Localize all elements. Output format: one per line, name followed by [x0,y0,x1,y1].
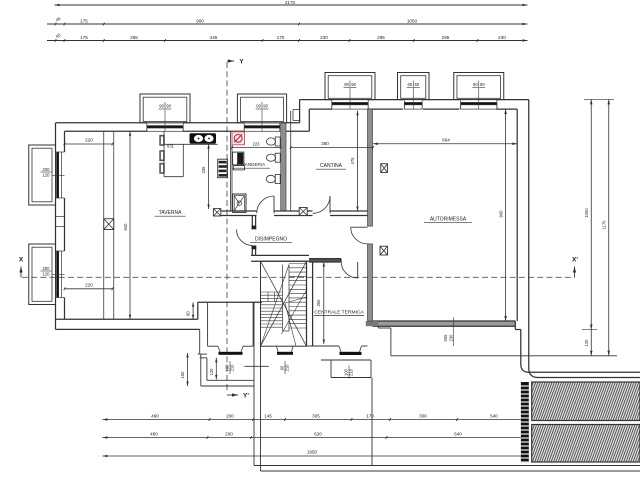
window sill bar [147,125,183,128]
porch outer step outline [199,329,201,354]
section marker Y' bottom [232,393,238,396]
terrace edge line [391,355,617,357]
svg-text:555: 555 [443,334,448,342]
interior wall garage left grey x=367.5-372.5 with door gap [368,109,373,226]
svg-text:631: 631 [167,143,175,148]
label 100/210 entrance1 rotated [225,361,235,374]
svg-text:X': X' [572,257,578,264]
wall disimpegno/porch vertical x=252-255.6 with door [251,216,253,230]
svg-text:220: 220 [85,282,93,287]
svg-text:170: 170 [366,413,374,418]
top wall left section outer y=122.8 with window gaps [56,122,148,124]
dim 80 step [192,302,194,319]
svg-text:120: 120 [584,339,589,347]
ct stoop box [330,360,332,378]
ct bottom edge with entrance3 gap [307,345,340,347]
svg-text:60: 60 [408,82,413,87]
window sill bar [244,125,280,128]
svg-text:150: 150 [180,371,185,379]
site boundary double line bottom [254,465,640,467]
svg-text:CANTINA: CANTINA [320,163,343,169]
svg-text:620: 620 [314,431,322,436]
svg-text:120: 120 [43,173,51,178]
svg-text:285: 285 [130,35,138,40]
left window box [29,244,56,305]
left window glass in wall [56,251,59,298]
ct door leaf and arc [357,262,359,278]
red stove symbol [232,132,245,145]
garage bottom wall step left [377,326,379,328]
window box [140,94,190,123]
step edge between entrance porches [244,365,268,367]
svg-text:80: 80 [186,311,191,316]
window box [454,73,504,100]
entrance2 sill under stairs [277,346,279,352]
wc fixture 1 [275,137,280,146]
svg-text:210: 210 [285,364,290,372]
svg-text:295: 295 [442,35,450,40]
stairs diagonals [261,261,307,346]
kitchen peninsula [182,144,184,176]
svg-text:300: 300 [419,413,427,418]
svg-text:90: 90 [159,104,164,109]
dimension row 45/175/285/445/170/230/295/295/230 [47,40,528,42]
dim 940 garage vertical [505,109,507,321]
svg-text:200: 200 [43,167,51,172]
dim 840 taverna vertical [129,131,131,319]
svg-text:1050: 1050 [407,18,418,23]
svg-text:LAVANDERIA: LAVANDERIA [237,162,266,167]
stairs small top-left treads [267,292,269,302]
label 90/210 entrance2 rotated [280,361,290,374]
svg-text:1050: 1050 [584,208,589,218]
svg-text:90: 90 [263,104,268,109]
stairs central stringer [282,265,284,332]
svg-text:210: 210 [349,368,354,376]
dim 360 ct vertical [323,262,325,344]
svg-text:445: 445 [210,35,218,40]
svg-text:220: 220 [85,138,93,143]
svg-text:90: 90 [344,82,349,87]
svg-text:1170: 1170 [602,220,607,230]
washing machine unit [233,152,244,165]
dim 335 kitchen [208,144,210,209]
right exterior wall inner x=517.2 [516,109,518,321]
dimension row total 2170 [55,4,528,6]
label 100/210 entrance3 rotated [344,366,354,379]
exterior wall outer outline left section [55,123,57,152]
door taverna->disimpegno arc [237,230,253,246]
svg-text:475: 475 [350,157,355,165]
window sill bar [404,102,422,105]
window box [237,94,286,123]
garage bottom wall outer line and corner to boundary [515,329,521,331]
garage bottom wall [373,321,516,326]
svg-text:230: 230 [320,35,328,40]
dim 120 porch [215,358,217,380]
svg-text:90: 90 [256,104,261,109]
svg-text:90: 90 [473,82,478,87]
svg-text:200: 200 [225,431,233,436]
right dim 1050 [590,99,592,329]
wall joint marks left wall [56,216,65,218]
kitchen counter top band [164,143,218,145]
wc fixture 2 [275,153,280,162]
svg-text:940: 940 [498,210,503,218]
dim 220 lower [65,288,113,290]
kitchen appliance boxes [160,135,165,145]
wc fixture 3 [275,174,280,183]
ramp hatched rect lower [532,425,640,463]
bottom wall of lavanderia/cantina y=211-215.5 with door gaps [214,210,257,212]
ramp black striped bar [521,382,529,463]
svg-text:CENTRALE TERMICA: CENTRALE TERMICA [314,310,364,316]
svg-text:480: 480 [150,431,158,436]
svg-text:335: 335 [201,166,206,174]
svg-text:175: 175 [80,35,88,40]
taverna pillar strip lines [103,131,105,319]
stairs upper treads [289,263,307,265]
svg-text:X: X [19,257,24,264]
dim 475 cantina vertical [357,111,359,211]
right dim 120 [590,330,592,356]
ct top wall with door gap [309,259,341,262]
svg-text:230: 230 [449,334,454,342]
section line Y-Y' (vertical dashed) [226,62,228,392]
dim 664 garage [373,143,517,145]
ramp hatched rect upper [532,382,640,421]
svg-text:90: 90 [480,82,485,87]
right exterior wall outer x=528.75 with bottom fillet [529,100,640,378]
wall under stoop to boundary [371,378,373,466]
svg-text:2170: 2170 [285,0,296,5]
wall porch/stairs down to boundary [253,302,255,465]
svg-text:90: 90 [166,104,171,109]
right dims extension lines [584,98,614,100]
porch step up [197,302,199,319]
shower tray [233,194,246,212]
svg-text:200: 200 [226,413,234,418]
svg-text:170: 170 [277,35,285,40]
left window glass in wall [56,152,59,198]
svg-text:120: 120 [43,272,51,277]
interior wall kitchen/lavanderia x=231 [229,131,231,211]
svg-text:295: 295 [377,35,385,40]
dim 220 upper [65,143,113,145]
svg-text:Y': Y' [243,393,249,400]
small unit below [233,166,244,170]
svg-text:200: 200 [43,266,51,271]
kitchen sink unit black [190,133,217,143]
taverna bottom wall outer y=329.4 [56,328,200,330]
column crossed box on wall x=300-307 [299,208,307,216]
door cantina leaf and arc [329,196,331,213]
svg-text:120: 120 [209,368,214,376]
svg-text:640: 640 [454,431,462,436]
svg-text:223: 223 [253,142,261,147]
svg-text:AUTORIMESSA: AUTORIMESSA [430,217,467,223]
column crossed box garage upper [381,164,388,173]
svg-text:230: 230 [498,35,506,40]
svg-text:1950: 1950 [307,450,318,455]
right dim 1170 [608,99,610,355]
svg-text:210: 210 [230,364,235,372]
section marker Y top [228,59,234,62]
stairs lower treads [261,291,283,293]
svg-text:175: 175 [80,18,88,23]
window sill bar [332,102,368,105]
svg-text:380: 380 [321,141,329,146]
svg-text:360: 360 [316,299,321,307]
svg-text:540: 540 [490,413,498,418]
wall step between left and right sections [299,100,301,123]
bottom dim row A [103,419,521,421]
window box [325,73,375,100]
taverna bottom wall inner y=319.3 [56,318,198,320]
svg-text:840: 840 [123,223,128,231]
disimpegno bottom wall y=255.4-261.2 [251,254,309,256]
bottom dim row B [103,437,521,439]
column crossed box garage lower [380,246,388,255]
tall cabinet with shelves [218,159,228,178]
column crossed box taverna [104,219,114,230]
top wall right section inner y=109.1 [309,108,332,110]
entrance1 door jambs and sill [218,346,220,352]
section line X-X' (horizontal dashed) [22,276,575,278]
dim 223 lavanderia [232,147,281,149]
top wall left section inner y=131.3 [65,130,148,132]
svg-text:490: 490 [151,413,159,418]
svg-text:DISIMPEGNO: DISIMPEGNO [255,237,287,243]
door lavanderia leaf and arc [273,196,275,213]
bottom dim row C 1950 [103,455,521,457]
svg-text:145: 145 [264,413,272,418]
svg-text:90: 90 [351,82,356,87]
stairwell box [261,261,307,346]
svg-text:305: 305 [312,413,320,418]
svg-text:60: 60 [415,82,420,87]
ct west wall double [306,261,308,346]
exterior wall inner face left [64,131,66,152]
interior wall lavanderia/cantina grey [281,123,286,211]
left window box [29,145,56,205]
top wall right section outer y=99.6 with window gaps [300,99,332,101]
entrance3 jambs and sill [339,346,341,352]
dim 380 cantina [291,147,373,149]
svg-text:664: 664 [442,137,450,142]
svg-text:TAVERNA: TAVERNA [159,210,183,216]
svg-text:900: 900 [196,18,204,23]
porch room box [207,303,209,346]
window box [398,73,430,100]
door disimpegno->garage leaf and arc [351,226,368,228]
dimension row 45/175/900/1050 [47,23,528,25]
dim 150 porch outer [187,353,189,386]
window sill bar [461,102,497,105]
column crossed box kitchen corner [213,209,220,216]
